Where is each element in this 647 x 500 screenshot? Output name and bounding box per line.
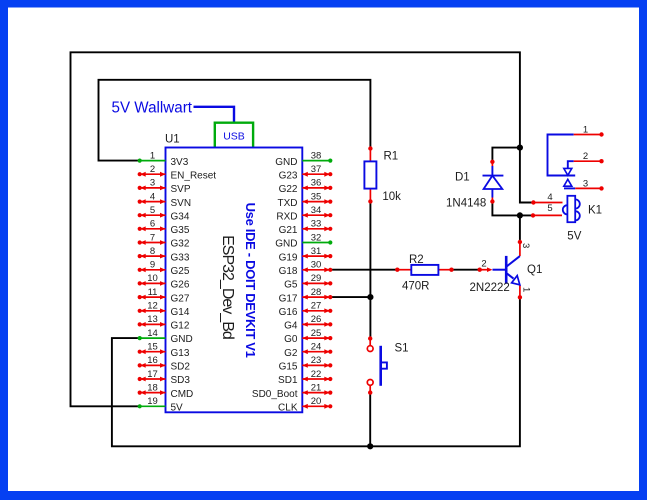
U1 pin 22 (SD1) xyxy=(278,369,332,386)
svg-text:ESP32_Dev_Bd: ESP32_Dev_Bd xyxy=(219,235,236,340)
U1 pin 7 (G32) xyxy=(138,232,190,249)
svg-text:12: 12 xyxy=(147,301,158,312)
U1 pin 21 (SD0_Boot) xyxy=(252,382,332,399)
U1 pin 9 (G25) xyxy=(138,260,190,277)
svg-text:10k: 10k xyxy=(382,191,401,203)
U1 pin 18 (CMD) xyxy=(138,382,194,399)
junction dot S1 / ground rail xyxy=(367,443,373,449)
svg-text:RXD: RXD xyxy=(276,211,297,222)
svg-text:G35: G35 xyxy=(171,225,190,236)
svg-text:G4: G4 xyxy=(284,321,298,332)
svg-text:20: 20 xyxy=(311,396,322,407)
svg-text:G15: G15 xyxy=(279,362,298,373)
svg-text:Use IDE - DOIT DEVKIT V1: Use IDE - DOIT DEVKIT V1 xyxy=(243,203,258,358)
svg-text:SD0_Boot: SD0_Boot xyxy=(252,389,298,400)
svg-text:22: 22 xyxy=(311,369,322,380)
USB connector xyxy=(215,123,253,149)
svg-text:1N4148: 1N4148 xyxy=(446,198,486,210)
relay K1 contacts (SPDT) xyxy=(548,135,576,189)
junction dot 5V rail / D1 cathode xyxy=(517,145,523,151)
wire U1 pin28 G17 to R1/S1 node xyxy=(330,296,370,298)
svg-text:29: 29 xyxy=(311,273,322,284)
wire D1 anode to K1 pin 5 xyxy=(492,202,533,216)
svg-text:3: 3 xyxy=(150,178,155,189)
U1 pin 12 (G14) xyxy=(138,301,190,318)
U1 pin 5 (G34) xyxy=(138,205,190,222)
svg-text:1: 1 xyxy=(150,150,155,161)
svg-text:G34: G34 xyxy=(171,211,190,222)
svg-text:26: 26 xyxy=(311,314,322,325)
svg-text:U1: U1 xyxy=(165,134,180,146)
U1 pin 30 (G18) xyxy=(279,260,333,277)
svg-text:GND: GND xyxy=(275,239,297,250)
diode D1 xyxy=(483,160,504,204)
svg-text:3: 3 xyxy=(520,243,531,248)
svg-text:G16: G16 xyxy=(279,307,298,318)
U1 pin 23 (G15) xyxy=(279,355,333,372)
svg-text:32: 32 xyxy=(311,232,322,243)
svg-text:30: 30 xyxy=(311,260,322,271)
junction dot R1 bottom / G17 wire xyxy=(367,294,373,300)
IC U1 ESP32_Dev_Bd body xyxy=(166,148,303,413)
svg-text:17: 17 xyxy=(147,369,158,380)
svg-text:4: 4 xyxy=(150,191,155,202)
U1 pin 32 (GND) xyxy=(275,232,332,249)
svg-text:35: 35 xyxy=(311,191,322,202)
wire U1 pin1 3V3 up and across to R1 top xyxy=(99,80,371,161)
U1 pin 1 (3V3) xyxy=(138,150,189,167)
svg-text:14: 14 xyxy=(147,328,158,339)
U1 pin 4 (SVN) xyxy=(138,191,191,208)
svg-text:13: 13 xyxy=(147,314,158,325)
svg-text:1: 1 xyxy=(520,287,531,292)
wire R1 bottom down to S1 top xyxy=(369,201,371,338)
U1 pin 17 (SD3) xyxy=(138,369,191,386)
svg-text:27: 27 xyxy=(311,301,322,312)
U1 pin 3 (SVP) xyxy=(138,178,191,195)
transistor Q1 xyxy=(478,240,523,300)
K1 coil pin 4 xyxy=(531,192,562,205)
wire Q1 emitter to ground rail to U1 pin14 GND xyxy=(112,297,520,446)
svg-text:EN_Reset: EN_Reset xyxy=(171,170,217,181)
svg-text:2: 2 xyxy=(481,258,486,269)
resistor R2 xyxy=(395,265,454,275)
wire 5V wallwart feed to USB connector xyxy=(194,107,235,123)
svg-text:8: 8 xyxy=(150,246,155,257)
svg-text:GND: GND xyxy=(275,157,297,168)
svg-text:CMD: CMD xyxy=(171,389,194,400)
svg-text:21: 21 xyxy=(311,382,322,393)
svg-text:15: 15 xyxy=(147,342,158,353)
svg-text:G26: G26 xyxy=(171,280,190,291)
U1 pin 33 (G21) xyxy=(279,219,333,236)
K1 contact pin 2 xyxy=(574,151,604,163)
svg-text:G13: G13 xyxy=(171,348,190,359)
U1 pin 19 (5V) xyxy=(138,396,183,413)
U1 pin 38 (GND) xyxy=(275,150,332,167)
wire D1 cathode to 5V rail xyxy=(492,148,520,162)
svg-text:G12: G12 xyxy=(171,321,190,332)
svg-text:7: 7 xyxy=(150,232,155,243)
U1 pin 13 (G12) xyxy=(138,314,190,331)
svg-text:28: 28 xyxy=(311,287,322,298)
svg-text:SD1: SD1 xyxy=(278,375,298,386)
wire R2 right to Q1 base xyxy=(452,269,480,271)
svg-text:19: 19 xyxy=(147,396,158,407)
svg-text:G18: G18 xyxy=(279,266,298,277)
svg-text:10: 10 xyxy=(147,273,158,284)
svg-text:38: 38 xyxy=(311,150,322,161)
U1 pin 35 (TXD) xyxy=(278,191,333,208)
svg-text:R2: R2 xyxy=(409,254,424,266)
svg-text:G22: G22 xyxy=(279,184,298,195)
svg-text:6: 6 xyxy=(150,219,155,230)
svg-text:Q1: Q1 xyxy=(527,264,542,276)
U1 pin 34 (RXD) xyxy=(276,205,332,222)
svg-text:G33: G33 xyxy=(171,252,190,263)
svg-text:USB: USB xyxy=(223,131,245,143)
svg-text:G2: G2 xyxy=(284,348,298,359)
U1 pin 6 (G35) xyxy=(138,219,190,236)
U1 pin 16 (SD2) xyxy=(138,355,191,372)
U1 pin 20 (CLK) xyxy=(278,396,332,413)
K1 contact pin 3 xyxy=(575,178,604,190)
svg-text:5: 5 xyxy=(150,205,155,216)
svg-text:3: 3 xyxy=(583,178,588,189)
svg-text:9: 9 xyxy=(150,260,155,271)
U1 pin 25 (G0) xyxy=(284,328,332,345)
svg-text:G27: G27 xyxy=(171,293,190,304)
svg-text:S1: S1 xyxy=(395,343,409,355)
wire collector node down to Q1 collector xyxy=(519,215,521,242)
svg-text:36: 36 xyxy=(311,178,322,189)
svg-text:G19: G19 xyxy=(279,252,298,263)
svg-text:SVN: SVN xyxy=(171,198,192,209)
U1 pin 27 (G16) xyxy=(279,301,333,318)
svg-text:11: 11 xyxy=(148,287,158,298)
svg-text:K1: K1 xyxy=(588,205,602,217)
svg-text:23: 23 xyxy=(311,355,322,366)
svg-text:CLK: CLK xyxy=(278,403,298,414)
svg-text:24: 24 xyxy=(311,342,322,353)
svg-text:37: 37 xyxy=(311,164,322,175)
svg-text:5: 5 xyxy=(547,203,552,214)
K1 contact pin 1 xyxy=(574,124,604,136)
U1 pin 26 (G4) xyxy=(284,314,332,331)
svg-text:TXD: TXD xyxy=(278,198,298,209)
U1 pin 31 (G19) xyxy=(279,246,333,263)
svg-text:G14: G14 xyxy=(171,307,190,318)
U1 pin 2 (EN_Reset) xyxy=(138,164,217,181)
svg-text:R1: R1 xyxy=(384,151,399,163)
svg-text:G32: G32 xyxy=(171,239,190,250)
svg-text:5V Wallwart: 5V Wallwart xyxy=(112,99,193,116)
svg-text:2: 2 xyxy=(583,151,588,162)
svg-text:1: 1 xyxy=(583,124,588,135)
U1 pin 15 (G13) xyxy=(138,342,190,359)
wire U1 pin30 G18 to R2 left xyxy=(330,269,397,271)
U1 pin 28 (G17) xyxy=(279,287,333,304)
svg-text:SD2: SD2 xyxy=(171,362,191,373)
junction dot D1 anode / Q1 collector node xyxy=(517,212,523,218)
U1 pin 29 (G5) xyxy=(284,273,332,290)
svg-text:4: 4 xyxy=(547,192,552,203)
svg-text:SD3: SD3 xyxy=(171,375,191,386)
U1 pin 8 (G33) xyxy=(138,246,190,263)
K1 coil pin 5 xyxy=(531,203,562,217)
svg-text:18: 18 xyxy=(147,382,158,393)
svg-text:31: 31 xyxy=(311,246,322,257)
svg-text:16: 16 xyxy=(147,355,158,366)
svg-text:2: 2 xyxy=(150,164,155,175)
U1 pin 24 (G2) xyxy=(284,342,332,359)
wire 5V rail: U1 pin19 left, up, across top, down to relay pin 4 xyxy=(71,52,534,406)
svg-text:G25: G25 xyxy=(171,266,190,277)
svg-text:G17: G17 xyxy=(279,293,298,304)
relay K1 coil xyxy=(563,196,580,222)
U1 pin 37 (G23) xyxy=(279,164,333,181)
wire S1 bottom to ground rail xyxy=(369,393,371,447)
svg-text:3V3: 3V3 xyxy=(171,157,189,168)
svg-text:D1: D1 xyxy=(455,172,470,184)
svg-text:SVP: SVP xyxy=(171,184,191,195)
U1 pin 14 (GND) xyxy=(138,328,193,345)
svg-text:33: 33 xyxy=(311,219,322,230)
svg-text:G23: G23 xyxy=(279,170,298,181)
svg-text:2N2222: 2N2222 xyxy=(470,282,510,294)
svg-text:G0: G0 xyxy=(284,334,298,345)
U1 pin 36 (G22) xyxy=(279,178,333,195)
svg-text:470R: 470R xyxy=(402,280,430,292)
svg-text:GND: GND xyxy=(171,334,193,345)
svg-text:5V: 5V xyxy=(171,403,184,414)
svg-text:G21: G21 xyxy=(279,225,298,236)
resistor R1 xyxy=(364,146,376,203)
U1 pin 11 (G27) xyxy=(138,287,190,304)
svg-text:G5: G5 xyxy=(284,280,298,291)
U1 pin 10 (G26) xyxy=(138,273,190,290)
pushbutton S1 xyxy=(367,336,387,395)
svg-text:34: 34 xyxy=(311,205,322,216)
svg-text:25: 25 xyxy=(311,328,322,339)
svg-text:5V: 5V xyxy=(567,231,581,243)
